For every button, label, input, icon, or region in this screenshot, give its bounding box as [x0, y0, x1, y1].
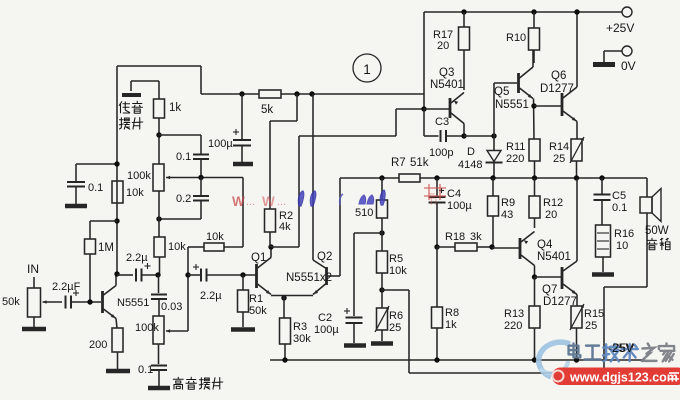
- wire left input rail: [116, 66, 118, 274]
- svg-text:C2: C2: [318, 312, 332, 324]
- resistor R2 4k: [265, 94, 298, 247]
- svg-text:3k: 3k: [470, 231, 482, 243]
- label IN: [27, 262, 39, 288]
- svg-text:-25V: -25V: [608, 341, 633, 355]
- svg-text:50k: 50k: [249, 305, 267, 317]
- resistor 10k tone vertical: [154, 237, 186, 275]
- svg-text:510: 510: [355, 207, 373, 219]
- svg-text:Q3: Q3: [439, 67, 454, 79]
- diode D 4148: [458, 136, 503, 178]
- resistor 10k tone horizontal: [188, 231, 243, 251]
- svg-text:0V: 0V: [621, 59, 636, 73]
- svg-text:Q6: Q6: [551, 70, 566, 82]
- capacitor 0.03 treble: [151, 275, 182, 316]
- transistor Q5 N5551: [494, 50, 533, 111]
- watermark center: [232, 184, 446, 209]
- label -25V over watermark: [608, 341, 633, 355]
- resistor R9 43: [488, 178, 516, 247]
- resistor 10k preamp load: [112, 181, 144, 224]
- svg-text:R12: R12: [543, 197, 563, 209]
- svg-text:R6: R6: [389, 310, 403, 322]
- transistor Q6 D1277: [540, 9, 580, 139]
- transistor Q1: [251, 244, 274, 294]
- svg-text:R10: R10: [506, 32, 526, 44]
- capacitor C5 0.1: [594, 178, 628, 225]
- potentiometer 100k bass: [127, 164, 243, 191]
- svg-text:R15: R15: [584, 308, 604, 320]
- svg-text:10k: 10k: [168, 241, 186, 253]
- capacitor 2.2uF input: [52, 281, 101, 309]
- svg-text:R16: R16: [614, 228, 634, 240]
- svg-text:N5551: N5551: [117, 297, 149, 309]
- svg-text:5k: 5k: [261, 104, 273, 116]
- svg-text:www.dgjs123.com: www.dgjs123.com: [569, 371, 678, 385]
- watermark url bar: [552, 368, 680, 386]
- svg-text:25: 25: [389, 322, 401, 334]
- resistor 1k: [154, 81, 182, 164]
- wire common emitters: [271, 295, 313, 318]
- resistor R18 3k: [434, 231, 494, 251]
- svg-text:Q4: Q4: [537, 239, 553, 251]
- resistor R16 10: [592, 225, 634, 275]
- svg-text:43: 43: [501, 209, 513, 221]
- label bass boost text: [119, 101, 143, 129]
- svg-text:R7: R7: [391, 157, 406, 169]
- resistor R5 10k: [377, 218, 408, 293]
- wire preamp supply loop: [117, 12, 424, 109]
- capacitor 2.2u coupling B: [188, 264, 256, 302]
- svg-text:100p: 100p: [429, 147, 453, 159]
- svg-text:220: 220: [504, 320, 522, 332]
- capacitor 2.2u coupling A: [117, 252, 161, 282]
- transistor input N5551: [103, 271, 150, 328]
- resistor 200 emitter: [89, 328, 130, 371]
- svg-text:N5551: N5551: [495, 99, 529, 111]
- svg-text:N5401: N5401: [430, 79, 464, 91]
- capacitor 0.1 preamp bypass: [65, 161, 120, 206]
- capacitor 0.1 tone: [159, 135, 209, 177]
- svg-text:0.1: 0.1: [138, 364, 153, 376]
- svg-text:4148: 4148: [458, 159, 482, 171]
- capacitor 100u decoupling: [208, 94, 253, 164]
- resistor R1 50k: [231, 275, 267, 330]
- svg-text:C4: C4: [447, 188, 461, 200]
- terminal +25V: [606, 7, 634, 35]
- svg-text:N5551x2: N5551x2: [286, 272, 332, 284]
- svg-text:4k: 4k: [279, 221, 291, 233]
- svg-text:R9: R9: [501, 197, 515, 209]
- svg-text:1M: 1M: [98, 242, 114, 254]
- svg-text:100µ: 100µ: [447, 200, 472, 212]
- capacitor C2 100u: [314, 233, 382, 346]
- svg-text:0.1: 0.1: [612, 202, 627, 214]
- svg-text:W: W: [262, 194, 275, 209]
- wire pot bottom: [158, 191, 160, 237]
- svg-text:0.03: 0.03: [161, 301, 182, 313]
- svg-text:200: 200: [89, 339, 107, 351]
- wire -25V bottom rail: [270, 357, 645, 362]
- transistor Q3 N5401: [421, 67, 464, 136]
- svg-text:51k: 51k: [410, 157, 429, 169]
- svg-text:R1: R1: [249, 293, 263, 305]
- svg-text:30k: 30k: [293, 333, 311, 345]
- wire VAS output node: [464, 83, 517, 139]
- svg-text:20: 20: [545, 209, 557, 221]
- transistor Q2: [313, 94, 340, 295]
- svg-text:Q2: Q2: [317, 251, 332, 263]
- transistor Q4 N5401: [492, 232, 571, 278]
- svg-text:10k: 10k: [126, 187, 144, 199]
- svg-text:220: 220: [506, 153, 524, 165]
- svg-text:2.2µF: 2.2µF: [52, 281, 81, 293]
- resistor 5k: [239, 90, 314, 116]
- svg-text:10: 10: [616, 240, 628, 252]
- svg-text:R18: R18: [445, 231, 465, 243]
- svg-text:0.1: 0.1: [88, 182, 103, 194]
- svg-text:W: W: [232, 194, 245, 209]
- svg-text:...: ...: [246, 196, 255, 208]
- svg-text:0.2: 0.2: [176, 193, 191, 205]
- speaker 50W: [640, 178, 669, 287]
- svg-text:0.1: 0.1: [176, 151, 191, 163]
- capacitor 0.1 treble: [138, 344, 170, 388]
- svg-text:+25V: +25V: [606, 21, 634, 35]
- svg-text:10k: 10k: [206, 231, 224, 243]
- resistor R8 1k: [432, 247, 460, 360]
- switch bass boost contact: [122, 81, 159, 95]
- capacitor C3 100p: [424, 109, 467, 159]
- svg-text:25: 25: [553, 153, 565, 165]
- svg-text:100k: 100k: [127, 170, 151, 182]
- svg-text:50W: 50W: [645, 225, 669, 237]
- capacitor 0.2 tone: [156, 178, 209, 222]
- node circled 1: [353, 54, 381, 82]
- svg-text:IN: IN: [27, 262, 39, 276]
- resistor R7 51k: [391, 157, 437, 182]
- svg-text:1k: 1k: [445, 319, 457, 331]
- svg-text:R3: R3: [293, 321, 307, 333]
- resistor R13 220: [504, 277, 540, 360]
- wire +25V top rail: [424, 11, 622, 13]
- label N5551x2: [286, 272, 332, 284]
- svg-text:10k: 10k: [389, 265, 407, 277]
- svg-text:R11: R11: [506, 141, 525, 153]
- svg-text:Q7: Q7: [542, 284, 557, 296]
- svg-text:D: D: [467, 146, 475, 158]
- potentiometer 50k input: [2, 288, 62, 329]
- resistor R11 220: [506, 139, 540, 178]
- wire Q1 collector to VAS base: [271, 109, 422, 247]
- terminal 0V with chassis ground: [593, 46, 636, 73]
- svg-text:C3: C3: [435, 116, 449, 128]
- wire speaker return: [382, 287, 647, 373]
- label speaker text: [647, 238, 670, 250]
- svg-text:...: ...: [277, 196, 286, 208]
- transistor Q7 D1277: [532, 178, 577, 308]
- resistor R14 25 adjustable: [549, 137, 584, 178]
- svg-text:2.2µ: 2.2µ: [126, 252, 148, 264]
- label treble boost text: [173, 377, 223, 389]
- resistor R15 25 adjustable: [570, 304, 604, 360]
- svg-text:1k: 1k: [169, 102, 181, 114]
- wire bass wiper riser: [242, 178, 244, 248]
- svg-text:100µ: 100µ: [314, 324, 339, 336]
- svg-text:100µ: 100µ: [208, 138, 233, 150]
- resistor R3 30k tail: [280, 318, 312, 360]
- svg-text:20: 20: [437, 40, 449, 52]
- wire treble wiper riser: [185, 247, 190, 331]
- watermark site name: [569, 343, 675, 361]
- svg-text:25: 25: [585, 320, 597, 332]
- capacitor C4 100u: [429, 178, 473, 247]
- resistor R10: [506, 9, 540, 63]
- label -25V: [609, 341, 634, 355]
- resistor R12 20: [529, 178, 563, 228]
- svg-text:R8: R8: [445, 307, 459, 319]
- svg-text:50k: 50k: [2, 296, 20, 308]
- svg-text:R5: R5: [389, 253, 403, 265]
- wire Q2 base feedback riser: [340, 175, 399, 276]
- svg-text:H: H: [430, 197, 437, 208]
- resistor R6 25 adjustable: [371, 273, 403, 344]
- svg-text:Q5: Q5: [494, 86, 509, 98]
- resistor 510: [355, 178, 388, 236]
- resistor R17 20: [433, 9, 470, 90]
- svg-text:2.2µ: 2.2µ: [200, 290, 222, 302]
- svg-text:100k: 100k: [135, 322, 159, 334]
- svg-text:R14: R14: [549, 141, 569, 153]
- watermark logo swoosh: [539, 342, 570, 377]
- svg-text:C5: C5: [612, 190, 626, 202]
- potentiometer 100k treble: [135, 316, 188, 344]
- svg-text:1: 1: [363, 62, 371, 77]
- wire Q5 emitter column: [531, 99, 561, 140]
- svg-text:N5401: N5401: [537, 251, 571, 263]
- wire output node line: [434, 175, 647, 180]
- resistor 1M bias: [85, 221, 118, 302]
- svg-text:R13: R13: [504, 308, 524, 320]
